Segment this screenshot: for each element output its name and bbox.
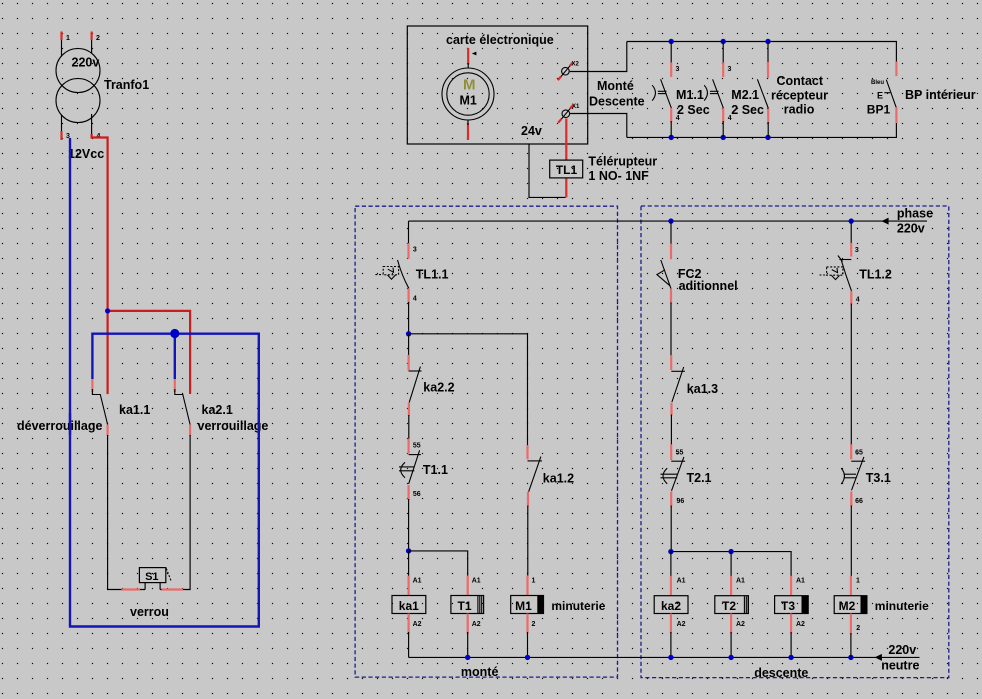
pin stub FC2 top [670, 244, 672, 260]
node junction monte branch [406, 331, 411, 336]
wire X2 to top bus [570, 42, 627, 72]
contact ka2.1 [175, 389, 190, 425]
pin stub T2.1 top [670, 444, 672, 460]
svg-text:A1: A1 [796, 578, 805, 585]
pin stub TL1.1 top [407, 243, 409, 259]
wire bottom rail [409, 656, 920, 658]
pin stub TL1 bottom [565, 179, 567, 198]
svg-text:TL1.1: TL1.1 [416, 268, 449, 282]
svg-text:A1: A1 [472, 578, 481, 585]
svg-text:220v: 220v [888, 643, 916, 657]
connector X1 [558, 104, 580, 123]
pin stub ka2 A1 [670, 576, 672, 596]
wire ka1.1 to S1 [108, 435, 146, 590]
pin stub ka1.3 top [670, 355, 672, 370]
svg-text:2 Sec: 2 Sec [731, 103, 764, 117]
svg-text:1: 1 [66, 35, 70, 42]
pin stub T1 A2 [467, 614, 469, 634]
pin stub T1.1 top [408, 439, 410, 454]
node junction T2 [728, 549, 733, 554]
svg-text:Bleu: Bleu [871, 80, 884, 86]
pin stub ka2.1 bottom [189, 425, 191, 437]
svg-text:2 Sec: 2 Sec [677, 103, 710, 117]
wire T3 to rail [790, 632, 792, 657]
svg-text:3: 3 [413, 247, 417, 254]
node rail dot T2 [728, 655, 733, 660]
svg-text:2: 2 [96, 35, 100, 42]
svg-text:A2: A2 [472, 621, 481, 628]
pin stub TL1.1 bottom [408, 288, 410, 303]
wire branch to ka1.2 [409, 334, 528, 446]
wire monte column top [408, 221, 410, 244]
svg-text:A2: A2 [736, 621, 745, 628]
svg-text:3: 3 [676, 66, 680, 73]
svg-text:24v: 24v [521, 124, 542, 138]
svg-text:M1: M1 [460, 94, 477, 108]
svg-text:T2: T2 [722, 599, 736, 613]
pin stub ka1.1 top [91, 379, 93, 392]
pin stub ka2.2 top [408, 355, 410, 371]
node rail dot ka2 [668, 655, 673, 660]
svg-text:aditionnel: aditionnel [679, 279, 738, 293]
svg-text:T1: T1 [457, 599, 471, 613]
contact TL1.1 [375, 260, 408, 288]
svg-text:monté: monté [461, 665, 499, 679]
pin stub T3 A2 [790, 614, 792, 634]
pin stub TL1.2 top [850, 243, 852, 257]
pin stub X1 bottom red to TL1 [565, 119, 567, 161]
pin 1 (transformer) [60, 32, 62, 41]
coil ka2 [654, 596, 688, 614]
pin stub M2 pin2 [850, 614, 852, 635]
svg-text:ka1: ka1 [399, 599, 419, 613]
svg-text:2: 2 [532, 621, 536, 628]
wire blue overlay left [69, 413, 71, 435]
pin stub ka2.1 top [174, 379, 176, 392]
svg-text:3: 3 [728, 66, 732, 73]
wire ka1 to rail [408, 632, 410, 657]
wire M1 to rail [527, 632, 529, 657]
switch S1 (verrou) [139, 568, 171, 590]
svg-text:M: M [463, 77, 476, 94]
telerupter coil TL1 [550, 160, 583, 178]
svg-text:ka2.2: ka2.2 [423, 381, 454, 395]
pin stub T3 A1 [790, 576, 792, 596]
node top bus dot M1.1 [669, 39, 674, 44]
pin stub T3.1 top [850, 444, 852, 459]
wire X1 to bottom bus [570, 114, 627, 138]
pin stub T3.1 bottom [850, 492, 852, 507]
node bottom bus dot M2.1 [721, 135, 726, 140]
svg-text:T2.1: T2.1 [687, 471, 712, 485]
coil T2 [715, 596, 749, 614]
pin stub T2.1 bottom [670, 492, 672, 507]
wire TL1.2 to T3.1 [850, 304, 852, 447]
node bottom bus dot radio [765, 135, 770, 140]
svg-text:S1: S1 [145, 571, 158, 583]
wire ka2.2 to T1.1 [408, 415, 410, 440]
contact ka1.2 [528, 457, 543, 492]
contact M2.1 timed [704, 42, 732, 138]
wire junction down to ka2.2 [408, 334, 410, 356]
wire ka2 to rail [670, 632, 672, 657]
pin stub FC2 bottom [670, 289, 672, 304]
svg-text:4: 4 [413, 296, 417, 303]
contact ka2.2 [409, 367, 422, 403]
svg-text:A1: A1 [736, 578, 745, 585]
wire ka2.1 to S1 [160, 435, 190, 590]
svg-text:220v: 220v [897, 222, 925, 236]
svg-text:1: 1 [532, 578, 536, 585]
wire branch to T2 and T3 [671, 552, 791, 577]
node bottom bus dot M1.1 [669, 135, 674, 140]
wire blue overlay right [258, 413, 260, 435]
svg-text:4: 4 [856, 297, 860, 304]
contact FC2 limit switch [657, 260, 671, 289]
svg-text:E: E [877, 91, 883, 101]
node rail dot T1 [465, 655, 470, 660]
node big blue junction at 174.8,333.7 [170, 329, 179, 338]
svg-text:M1.1: M1.1 [676, 88, 704, 102]
svg-text:A1: A1 [413, 578, 422, 585]
svg-text:220v: 220v [72, 56, 100, 70]
svg-text:Tranfo1: Tranfo1 [104, 78, 149, 92]
motor M1 [442, 68, 494, 120]
coil T3 [775, 596, 809, 614]
wire phase line [409, 220, 928, 222]
wire ka2 drop [670, 552, 672, 577]
svg-text:BP1: BP1 [867, 103, 891, 117]
node dot TL1.2 top [849, 218, 854, 223]
svg-text:descente: descente [754, 666, 808, 680]
pin stub T2 A1 [730, 576, 732, 596]
wire blue drop to ka2.1 [174, 334, 176, 379]
svg-text:récepteur: récepteur [771, 89, 828, 103]
pin stub TL1.2 bottom [850, 291, 852, 305]
svg-text:TL1.2: TL1.2 [859, 268, 892, 282]
svg-text:minuterie: minuterie [551, 599, 605, 613]
pin stub motor bottom [467, 124, 469, 141]
contact M1.1 timed [652, 42, 680, 138]
pin stub T1 A1 [467, 576, 469, 596]
contact T1.1 timed [399, 450, 421, 484]
contact ka1.3 [671, 367, 685, 402]
svg-text:Contact: Contact [777, 74, 824, 88]
wire red 12V positive from pin 4 down to junction [92, 134, 108, 394]
pin stub ka1.2 top [526, 445, 528, 459]
wire FC2 to ka1.3 [670, 303, 672, 357]
svg-text:ka1.1: ka1.1 [119, 403, 150, 417]
node junction coils monte [406, 548, 411, 553]
contact ka1.1 [92, 389, 107, 425]
push button BP1 [871, 62, 897, 124]
wire bottom bus [627, 123, 897, 138]
contact TL1.2 [820, 256, 852, 291]
dotted enclosure monte [355, 206, 617, 677]
svg-text:A1: A1 [677, 578, 686, 585]
contact recepteur radio [757, 42, 768, 138]
transformer Tranfo1 [56, 39, 100, 135]
svg-text:T1.1: T1.1 [423, 463, 448, 477]
svg-text:56: 56 [413, 491, 421, 498]
svg-text:carte électronique: carte électronique [446, 33, 554, 47]
svg-text:65: 65 [855, 450, 863, 457]
svg-text:TL1: TL1 [556, 163, 578, 177]
svg-text:1 NO- 1NF: 1 NO- 1NF [588, 169, 649, 183]
pin stub ka1 A1 [408, 576, 410, 596]
wire TL1.1 to junction [408, 302, 410, 334]
svg-text:minuterie: minuterie [875, 599, 929, 613]
svg-text:Monté: Monté [597, 79, 634, 93]
svg-text:12Vcc: 12Vcc [68, 147, 104, 161]
wire T3.1 to M2 [850, 506, 852, 577]
dotted enclosure descente [641, 206, 949, 678]
wire T2.1 to coil junction [670, 506, 672, 552]
pin stub ka1 A2 [408, 614, 410, 634]
pin 2 (transformer) [90, 32, 92, 41]
wire ka1.2 to M1 coil [527, 506, 529, 577]
wire T2 drop [730, 552, 732, 577]
svg-text:M2.1: M2.1 [731, 88, 759, 102]
pin stub T1.1 bottom [408, 485, 410, 500]
arrow neutre [875, 654, 882, 661]
wire motor top pin [467, 63, 469, 68]
svg-text:M1: M1 [515, 599, 532, 613]
pin 3 (transformer) [60, 131, 62, 140]
wire top bus [627, 42, 897, 63]
svg-text:A2: A2 [413, 621, 422, 628]
node rail dot T3 [788, 655, 793, 660]
svg-text:55: 55 [413, 443, 421, 450]
wire motor bottom pin [467, 120, 469, 125]
node junction ka2 [668, 549, 673, 554]
wire T1.1 to coil junction [408, 499, 410, 551]
svg-text:ka2: ka2 [661, 599, 681, 613]
svg-text:2: 2 [856, 625, 860, 632]
svg-text:3: 3 [855, 247, 859, 254]
svg-text:A2: A2 [677, 621, 686, 628]
node top bus dot radio [765, 39, 770, 44]
svg-text:Télérupteur: Télérupteur [588, 155, 657, 169]
svg-text:Descente: Descente [589, 95, 645, 109]
coil T1 [451, 596, 484, 614]
pin stub motor top [467, 48, 469, 65]
coil M2 minuterie [834, 596, 867, 614]
pin stub ka1.3 bottom [670, 403, 672, 416]
pin stub M2 pin1 [850, 576, 852, 596]
svg-text:X1: X1 [572, 104, 580, 110]
svg-text:ka2.1: ka2.1 [202, 403, 233, 417]
pin stub S1 right [162, 588, 183, 590]
svg-text:66: 66 [855, 498, 863, 505]
svg-text:55: 55 [676, 450, 684, 457]
svg-text:96: 96 [677, 498, 685, 505]
svg-text:ka1.2: ka1.2 [543, 472, 574, 486]
pin stub M1 pin1 [526, 576, 528, 596]
connector X2 [558, 62, 580, 81]
svg-text:T3.1: T3.1 [866, 471, 891, 485]
svg-text:X2: X2 [572, 62, 580, 68]
wire T1 to rail [467, 632, 469, 657]
coil M1 minuterie [511, 596, 544, 614]
svg-text:verrou: verrou [130, 605, 169, 619]
pin stub M1 pin2 [526, 614, 528, 634]
wire TL1.2 column top [850, 221, 852, 244]
node dot FC2 top [668, 218, 673, 223]
coil ka1 [392, 596, 426, 614]
wire ka1.3 to T2.1 [670, 415, 672, 447]
svg-text:déverrouillage: déverrouillage [17, 419, 102, 433]
wire M2 to rail [850, 633, 852, 657]
wire descente left column top [670, 221, 672, 245]
node top bus dot M2.1 [721, 39, 726, 44]
svg-text:BP intérieur: BP intérieur [905, 88, 976, 102]
node rail dot M2 [848, 655, 853, 660]
pin stub T2 A2 [730, 614, 732, 634]
pin stub ka2.2 bottom [408, 403, 410, 416]
wire 24v to TL1 [529, 144, 566, 197]
svg-text:phase: phase [897, 207, 933, 221]
svg-text:M2: M2 [839, 599, 856, 613]
pin stub S1 left [122, 588, 141, 590]
pin stub ka2 A2 [670, 614, 672, 634]
carte electronique box [407, 26, 587, 144]
node rail dot M1 [525, 655, 530, 660]
svg-text:T3: T3 [781, 599, 795, 613]
svg-text:ka1.3: ka1.3 [687, 382, 718, 396]
contact T2.1 timed [661, 457, 686, 491]
wire T2 to rail [730, 632, 732, 657]
arrow phase [881, 218, 888, 225]
svg-text:A2: A2 [796, 621, 805, 628]
contact T3.1 timed [841, 457, 865, 490]
svg-text:1: 1 [856, 578, 860, 585]
wire branch to T1 coil [409, 551, 468, 577]
arrow marker on motor top pin [472, 52, 477, 56]
wire blue 12V return rectangle [70, 138, 259, 627]
wire red junction branch to ka2.1 [108, 311, 191, 394]
node junction red/blue dot at 107,311 [105, 308, 110, 313]
svg-text:radio: radio [784, 103, 815, 117]
wire down to ka1 coil [408, 551, 410, 577]
pin stub ka1.1 bottom [106, 425, 108, 437]
svg-text:neutre: neutre [881, 659, 919, 673]
pin stub ka1.2 bottom [527, 492, 529, 507]
